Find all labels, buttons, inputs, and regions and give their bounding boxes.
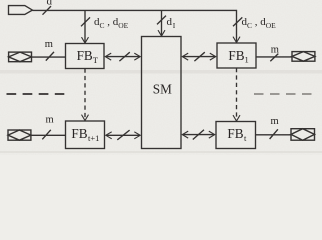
channel symbol top-right <box>292 52 315 62</box>
block FB_t <box>216 122 256 149</box>
dashed ellipsis line right <box>254 93 312 95</box>
bus source tag <box>9 6 33 15</box>
bus-width slash on FB_T-SM wire <box>119 52 129 61</box>
svg-text:m: m <box>271 116 279 127</box>
block FB_t+1 <box>66 121 105 149</box>
bus-width slash on bus d <box>43 6 52 15</box>
channel symbol bottom-left <box>8 130 31 140</box>
wire m: channel to FB_T <box>32 56 66 58</box>
bus-width slash on m wire bottom-right <box>270 129 278 139</box>
svg-text:m: m <box>271 44 279 55</box>
block SM <box>142 37 182 149</box>
bus-width slash on d_I drop <box>157 16 166 25</box>
svg-text:m: m <box>45 39 53 50</box>
channel symbol top-left <box>9 52 32 62</box>
bus-width slash on m wire top-left <box>46 52 54 61</box>
dashed ellipsis line left <box>7 93 65 95</box>
bus-width slash on SM-FB_1 wire <box>194 52 204 61</box>
channel symbol bottom-right <box>291 129 315 141</box>
bus-width slash on FB_t+1-SM wire <box>117 130 129 140</box>
wire: FB_t+1 to SM double arrow <box>106 134 140 136</box>
bus-width slash on m wire top-right <box>270 54 278 62</box>
svg-text:d: d <box>47 0 53 8</box>
wire: drop d_I to SM <box>161 10 163 35</box>
block FB_1 <box>217 43 256 68</box>
wire m: FB_1 to channel <box>256 56 292 58</box>
svg-text:m: m <box>46 115 54 126</box>
wire: SM to FB_1 double arrow <box>183 56 216 58</box>
wire: FB_T to SM double arrow <box>106 56 140 58</box>
block FB_T <box>66 44 105 69</box>
bus-width slash on FB_1 drop <box>233 17 242 26</box>
dashed wire: FB_1 down to FB_t <box>236 68 238 121</box>
wire m: FB_t to channel <box>256 134 292 136</box>
dashed wire: FB_T down to FB_t+1 <box>84 69 86 121</box>
svg-text:SM: SM <box>153 82 172 97</box>
wire: drop to FB_T <box>84 10 86 42</box>
bus-width slash on m wire bottom-left <box>42 130 51 140</box>
wire m: channel to FB_t+1 <box>31 134 66 136</box>
bus-width slash on SM-FB_t wire <box>193 130 204 140</box>
wire: SM to FB_t double arrow <box>183 134 215 136</box>
wire: top bus d <box>32 10 236 42</box>
bus-width slash on FB_T drop <box>81 17 90 26</box>
